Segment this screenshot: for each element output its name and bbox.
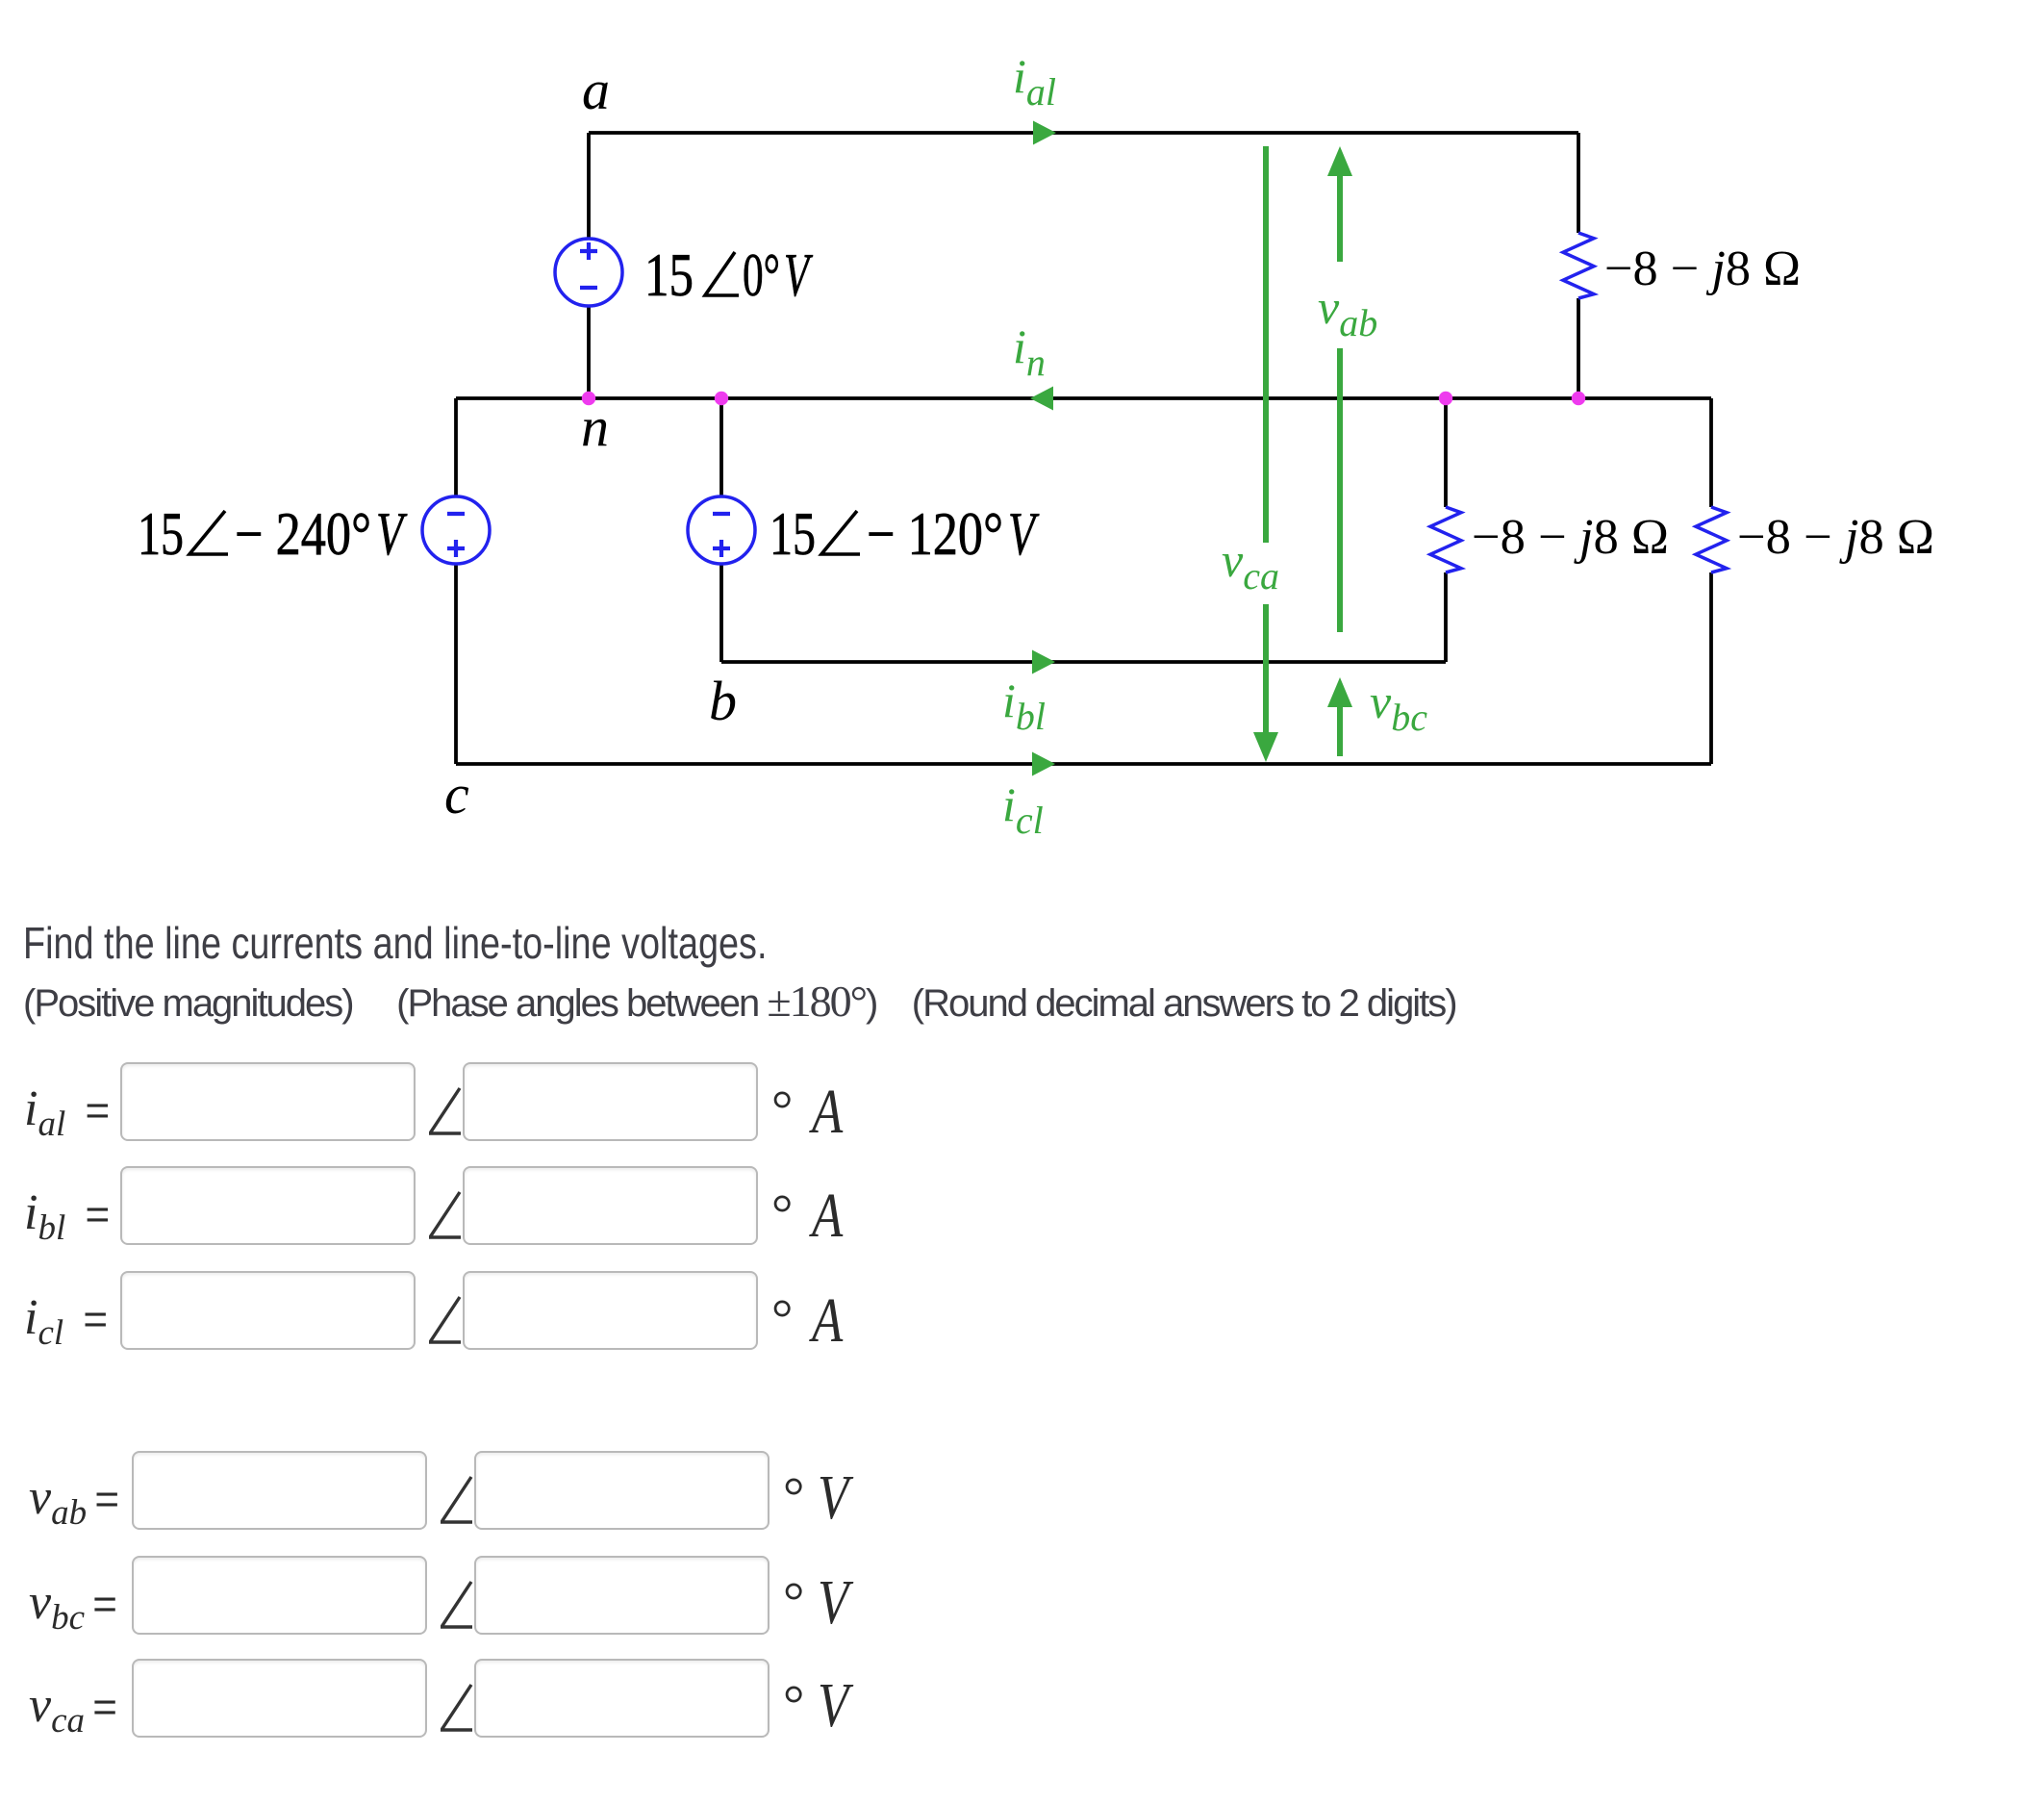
wire: source C bottom to node b: [719, 563, 723, 662]
question text: [23, 917, 767, 969]
svg-text:vca: vca: [1222, 533, 1279, 597]
voltage arrow v_bc: [1327, 677, 1352, 756]
answer row i_bl: [24, 1184, 110, 1249]
answer row v_ca: [29, 1677, 117, 1741]
node dot load-a: [1572, 392, 1585, 405]
svg-text:0°: 0°: [743, 241, 780, 309]
voltage source U_b 15&#8736;-240&#176; V: [422, 496, 490, 564]
svg-text:c: c: [444, 763, 469, 826]
wire: b line to load-b: [721, 660, 1446, 664]
voltage source U_c 15&#8736;-120&#176; V: [688, 496, 755, 564]
wire: source A bottom to node n: [587, 306, 591, 398]
answer row i_al: [24, 1080, 110, 1145]
label 15&#8736;-120&#176; V for source U_c: [770, 500, 1040, 568]
wire: b vertical top (n to source C): [719, 398, 723, 497]
wire: bottom c line: [456, 762, 1711, 766]
svg-text:−8 − j8 Ω: −8 − j8 Ω: [1604, 241, 1801, 296]
answer row v_bc: [29, 1574, 117, 1639]
svg-text:icl: icl: [1002, 777, 1044, 842]
svg-text:n: n: [581, 395, 609, 458]
wire: load-a resistor leads: [1577, 133, 1580, 233]
answer row i_cl: [24, 1289, 108, 1354]
circuit schematic: [0, 0, 2044, 914]
label 15&#8736;0&#176; V for source U_a: [644, 241, 813, 309]
svg-text:V: V: [784, 241, 813, 309]
svg-text:15: 15: [138, 500, 184, 568]
wire: load-b resistor leads: [1444, 398, 1448, 507]
svg-text:ial: ial: [1013, 49, 1056, 114]
svg-text:in: in: [1013, 319, 1046, 384]
wire: top line a to load-a: [589, 131, 1578, 135]
svg-text:− 240°: − 240°: [235, 500, 371, 568]
resistor R_c: [1696, 507, 1727, 572]
wire: neutral line n: [456, 396, 1711, 400]
svg-text:b: b: [709, 670, 737, 732]
wire: source B bottom to c corner: [454, 563, 458, 764]
answer row v_ab: [29, 1469, 119, 1534]
svg-text:15: 15: [770, 500, 816, 568]
current arrow i_n: [1030, 387, 1053, 411]
svg-text:V: V: [1008, 500, 1040, 568]
svg-text:−8 − j8 Ω: −8 − j8 Ω: [1737, 510, 1934, 565]
svg-text:V: V: [376, 500, 408, 568]
voltage source U_a 15&#8736;0&#176; V: [555, 239, 622, 306]
current arrow i_cl: [1032, 752, 1055, 776]
svg-text:15: 15: [644, 241, 694, 309]
svg-text:vab: vab: [1318, 280, 1377, 344]
node n dot: [582, 392, 595, 405]
wire: load-c resistor leads: [1709, 398, 1713, 507]
svg-text:−8 − j8 Ω: −8 − j8 Ω: [1472, 510, 1669, 565]
current arrow i_bl: [1032, 650, 1055, 674]
wire: a vertical into source A: [587, 133, 591, 239]
node dot load-b: [1439, 392, 1452, 405]
current arrow i_al: [1033, 121, 1056, 145]
resistor R_a: [1563, 233, 1594, 298]
wire: left vertical top (n to source B): [454, 398, 458, 497]
svg-text:vbc: vbc: [1370, 674, 1427, 739]
svg-text:ibl: ibl: [1002, 673, 1046, 738]
label 15&#8736;-240&#176; V for source U_b: [138, 500, 408, 568]
node dot b-branch: [715, 392, 728, 405]
voltage arrow v_ab: [1327, 146, 1352, 632]
voltage arrow v_ca: [1253, 146, 1278, 762]
svg-text:a: a: [582, 59, 610, 121]
svg-text:− 120°: − 120°: [867, 500, 1003, 568]
resistor R_b: [1430, 507, 1461, 572]
